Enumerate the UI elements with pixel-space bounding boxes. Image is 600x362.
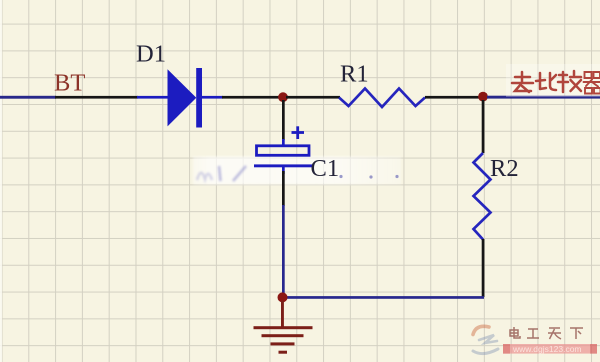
ground bar 3 — [271, 342, 295, 345]
wire BT net left navy segment — [0, 96, 56, 99]
wire black R1 to node B — [425, 96, 479, 99]
left edge light strip — [0, 0, 2, 362]
char 下 — [570, 328, 583, 339]
capacitor C1 top plate — [257, 146, 310, 156]
wire black R2 down to bottom rail — [482, 239, 485, 297]
resistor R1 zigzag — [339, 89, 425, 108]
ground stub — [281, 301, 284, 327]
char 电 — [510, 327, 520, 338]
wire blue down to bottom node — [282, 205, 285, 296]
char 去 — [512, 72, 533, 92]
svg-text:D1: D1 — [136, 41, 166, 68]
node B junction dot — [478, 92, 488, 102]
diode D1 cathode lead — [202, 96, 223, 99]
char 比 — [536, 73, 556, 90]
svg-text:R1: R1 — [340, 61, 369, 88]
ground bar 4 — [279, 351, 288, 354]
ground bar 1 — [254, 326, 313, 329]
svg-text:R2: R2 — [490, 155, 519, 182]
watermark logo swirl bottom right — [473, 326, 498, 353]
char 天 — [548, 328, 561, 339]
net label 去比较器 (to comparator) drawn as strokes — [512, 71, 600, 94]
wire black node A down to capacitor — [282, 100, 285, 140]
wire black segment to diode — [55, 96, 138, 99]
watermark red band www.dgjs123.com — [503, 344, 597, 354]
diode D1 cathode bar — [196, 68, 202, 128]
capacitor C1 bottom lead blue stub — [282, 167, 285, 174]
node A junction dot — [278, 92, 288, 102]
char 器 — [584, 72, 600, 94]
diode D1 triangle — [168, 69, 197, 126]
wire black node B down to R2 — [482, 100, 485, 153]
wire black diode to node A — [222, 96, 280, 99]
wire black node A to R1 — [286, 96, 340, 99]
char 较 — [558, 71, 581, 92]
watermark faint dots right of C1 — [339, 175, 398, 179]
svg-text:www.dgjs123.com: www.dgjs123.com — [512, 344, 582, 354]
svg-text:C1: C1 — [311, 155, 340, 182]
char 工 — [527, 329, 539, 338]
watermark faint blue smudges — [197, 166, 246, 181]
node C bottom junction dot — [278, 292, 288, 302]
wire navy node B to right edge — [487, 96, 600, 99]
watermark text 电工天下 drawn as strokes — [510, 327, 583, 339]
watermark white band middle — [193, 157, 401, 185]
capacitor C1 top lead blue — [282, 139, 285, 147]
svg-text:BT: BT — [54, 70, 85, 97]
ground bar 2 — [262, 334, 304, 337]
capacitor C1 bottom plate — [254, 164, 313, 167]
resistor R2 zigzag — [474, 153, 491, 240]
capacitor C1 plus sign — [292, 126, 305, 139]
net label wash — [506, 64, 600, 97]
bottom rail navy wire — [282, 296, 484, 299]
wire black capacitor to mid — [282, 171, 285, 206]
diode D1 anode lead — [137, 96, 168, 99]
